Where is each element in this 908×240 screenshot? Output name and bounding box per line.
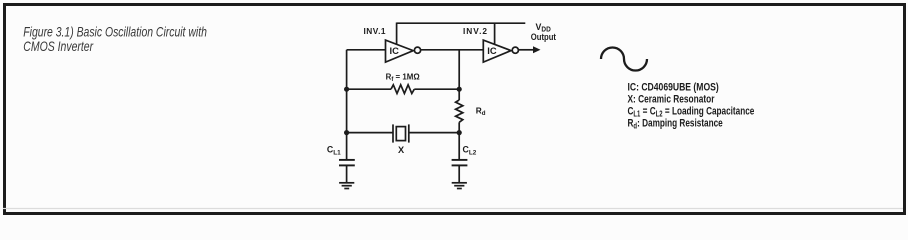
wire: INV.1 output to INV.2 input <box>421 49 484 51</box>
figure caption <box>23 24 207 54</box>
junction dot (Rf left) <box>344 87 349 92</box>
svg-text:Output: Output <box>531 32 556 42</box>
junction dot (lower right) <box>457 130 462 135</box>
svg-text:Rd: Damping Resistance: Rd: Damping Resistance <box>628 117 724 130</box>
svg-text:IC: CD4069UBE (MOS): IC: CD4069UBE (MOS) <box>628 82 719 94</box>
svg-text:INV.2: INV.2 <box>463 26 487 36</box>
legend line: CL1 CL2 <box>628 106 755 119</box>
resistor Rd (damping) <box>456 89 463 133</box>
svg-text:CMOS Inverter: CMOS Inverter <box>23 39 94 55</box>
wire: lower rail right (resonator to Rd) <box>409 132 459 134</box>
svg-text:CL2: CL2 <box>463 145 477 157</box>
inverter INV.2 (IC) <box>483 40 518 62</box>
ground (CL2) <box>452 183 467 189</box>
ground (CL1) <box>339 183 354 189</box>
wire: INV.1 input <box>347 49 386 51</box>
sine wave symbol <box>601 48 647 71</box>
label Output <box>531 32 556 42</box>
svg-text:Rd: Rd <box>476 106 486 118</box>
inverter INV.1 (IC) <box>386 40 421 62</box>
wire: INV.1 power drop <box>396 23 398 46</box>
legend line: IC <box>628 82 719 94</box>
svg-text:X: Ceramic Resonator: X: Ceramic Resonator <box>628 94 715 106</box>
label VDD <box>536 22 551 34</box>
legend line: X <box>628 94 715 106</box>
wire: left vertical bus <box>346 50 348 133</box>
svg-text:INV.1: INV.1 <box>364 26 386 36</box>
wire: INV.2 output with arrow <box>518 46 540 53</box>
junction dot (lower left) <box>344 130 349 135</box>
wire: INV.2 power drop <box>494 23 496 46</box>
wire: lower rail left (to resonator) <box>347 132 393 134</box>
capacitor CL2 <box>452 133 468 183</box>
capacitor CL1 <box>339 133 355 183</box>
resistor Rf = 1M ohm (feedback) <box>347 85 460 94</box>
svg-text:CL1: CL1 <box>327 145 341 157</box>
legend line: Rd <box>628 117 724 130</box>
svg-text:IC: IC <box>487 45 497 56</box>
ceramic resonator X <box>393 124 409 142</box>
wire: VDD top rail <box>397 22 526 24</box>
svg-text:X: X <box>398 145 405 155</box>
svg-text:Rf = 1MΩ: Rf = 1MΩ <box>386 72 421 83</box>
label Rf = 1M ohm <box>386 72 421 83</box>
svg-text:IC: IC <box>390 45 400 56</box>
wire: mid vertical drop to Rf <box>458 50 460 89</box>
junction dot (Rf right) <box>457 87 462 92</box>
